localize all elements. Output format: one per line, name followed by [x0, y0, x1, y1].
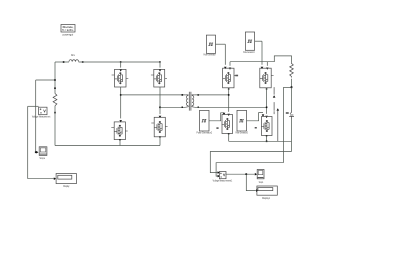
- mosfet M7: [216, 115, 232, 134]
- capacitor C1 branch bottom: [291, 119, 293, 141]
- capacitor C1: [286, 110, 294, 119]
- svg-text:Voltage Measurement: Voltage Measurement: [32, 114, 51, 118]
- wire VM1 minus vertical: [27, 106, 29, 178]
- label mark left of M8: [255, 127, 257, 129]
- node rail junction M2: [159, 61, 161, 63]
- mosfet M2: [151, 69, 167, 87]
- node junction scope branch: [35, 151, 37, 153]
- svg-text:Pulse Generator: Pulse Generator: [204, 53, 216, 57]
- node junction right leg: [159, 107, 161, 109]
- wire drop into M1: [120, 62, 122, 68]
- wire drop into M6: [266, 62, 268, 66]
- wire bridge to transformer top: [121, 94, 186, 96]
- node T1 secondary bottom dot: [198, 107, 200, 109]
- wire M3 source to rail: [119, 140, 121, 146]
- pulse generator PG1: [204, 35, 216, 56]
- node junction left leg: [120, 94, 122, 96]
- wire PG1 gate drop: [224, 44, 226, 65]
- wire right bridge right leg: [266, 88, 268, 114]
- wire bridge to transformer bottom: [160, 106, 185, 108]
- node M6 bottom port: [266, 88, 268, 90]
- transformer T1 primary winding: [185, 95, 188, 107]
- wire display2 branch: [246, 174, 256, 190]
- svg-text:Voltage Measurement1: Voltage Measurement1: [213, 179, 233, 183]
- wire VM2 minus path: [216, 163, 283, 176]
- wire M8 source to rail: [266, 136, 268, 142]
- voltage measurement VM1: [32, 107, 51, 118]
- wire PG4 output: [247, 113, 264, 121]
- wire PG3 output: [209, 113, 224, 121]
- display Display2: [257, 186, 277, 200]
- node R1 bottom port: [54, 112, 56, 114]
- node M8 bottom port: [266, 135, 268, 137]
- wire plus tap vertical: [282, 87, 284, 162]
- resistor R1: [53, 94, 57, 106]
- transformer T1 secondary winding: [192, 95, 195, 107]
- wire right bridge left leg: [228, 88, 230, 112]
- wire left rail lower: [54, 106, 56, 146]
- svg-text:Scope: Scope: [39, 156, 45, 160]
- svg-text:Display: Display: [63, 184, 69, 188]
- node port dot left of L1: [63, 61, 65, 63]
- mosfet M4: [151, 117, 167, 137]
- node port dot right of L1: [82, 61, 84, 63]
- wire PG2 gate drop: [261, 41, 263, 65]
- wire load minus tap: [291, 141, 293, 151]
- wire VM2 output: [226, 173, 255, 175]
- wire R2 to junction: [291, 79, 293, 87]
- wire transformer to right bridge top: [195, 94, 229, 96]
- wire bottom rail: [55, 145, 160, 147]
- svg-text:powergui: powergui: [63, 32, 74, 36]
- wire M7 source to rail: [228, 134, 230, 142]
- node junction right bridge left leg: [228, 94, 230, 96]
- node T1 primary top dot: [182, 94, 184, 96]
- wire transformer to right bridge bottom: [195, 106, 267, 108]
- wire left rail upper: [54, 62, 56, 94]
- wire PG1 output: [216, 43, 226, 45]
- node M5 bottom port: [228, 88, 230, 90]
- wire VM1 vertical to scope: [35, 80, 37, 152]
- mosfet M8: [261, 117, 272, 136]
- mosfet M1: [112, 69, 129, 87]
- wire left leg mid: [120, 87, 122, 118]
- wire M4 source to rail: [159, 137, 161, 146]
- node M3 bottom port: [119, 139, 121, 141]
- svg-text:Pulse Generator1: Pulse Generator1: [243, 50, 255, 54]
- voltage measurement VM2: [213, 172, 233, 183]
- measurement stub i1: [273, 87, 276, 114]
- node T1 primary bottom dot: [182, 107, 184, 109]
- capacitor C1 branch top: [291, 87, 293, 110]
- svg-text:Iin: Iin: [71, 53, 75, 57]
- pulse generator PG4: [235, 110, 248, 134]
- wire top rail to bridge: [79, 61, 160, 63]
- node M7 bottom port: [228, 133, 230, 135]
- wire VM2 plus path: [210, 152, 291, 173]
- node junction right bridge right leg: [266, 107, 268, 109]
- node load top junction: [291, 86, 293, 88]
- wire drop into M2: [159, 62, 161, 68]
- node junction M8 rail: [266, 141, 268, 143]
- mosfet M3: [111, 122, 127, 140]
- pulse generator PG2: [243, 32, 255, 54]
- transformer T1 core: [189, 92, 191, 111]
- wire VM1 tap horizontal: [36, 79, 55, 81]
- inductor L1: [69, 53, 79, 62]
- node rail junction M1: [120, 61, 122, 63]
- mosfet M5: [223, 68, 239, 88]
- pulse generator PG3: [197, 110, 213, 134]
- svg-text:Display1: Display1: [262, 196, 270, 200]
- node R1 top port: [54, 87, 56, 89]
- wire drop into M5: [229, 62, 231, 66]
- node junction on left rail: [54, 79, 56, 81]
- node T1 secondary top dot: [197, 94, 199, 96]
- wire into display1: [28, 178, 55, 180]
- resistor R2: [290, 62, 294, 77]
- wire arrow into scope1: [36, 151, 38, 153]
- wire plus tap top link: [283, 86, 290, 88]
- mosfet M6: [260, 68, 274, 88]
- powergui U0: [61, 25, 75, 37]
- measurement stub i2: [277, 108, 280, 141]
- wire right bridge bottom rail: [229, 140, 292, 142]
- wire top rail left segment: [55, 61, 69, 63]
- scope Scope2: [257, 170, 264, 185]
- node junction scope2 branch: [245, 173, 247, 175]
- wire PG2 output: [255, 40, 262, 42]
- display Display1: [56, 174, 76, 189]
- wire VM1 minus horizontal: [28, 105, 39, 107]
- node M4 bottom port: [159, 136, 161, 138]
- svg-text:Pulse Generator3: Pulse Generator3: [235, 131, 248, 135]
- svg-text:Scope1: Scope1: [259, 180, 264, 184]
- wire right leg mid: [159, 87, 161, 114]
- svg-text:Pulse Generator2: Pulse Generator2: [197, 131, 213, 135]
- scope Scope1: [39, 147, 47, 160]
- wire right bridge top rail: [230, 56, 292, 63]
